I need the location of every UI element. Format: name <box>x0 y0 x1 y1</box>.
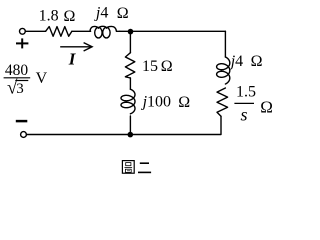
plus sign of source <box>16 38 28 48</box>
junction node top <box>128 29 134 35</box>
svg-text:3: 3 <box>16 81 24 97</box>
terminal - (bottom-left open circle) <box>21 132 27 138</box>
character tu <box>122 161 134 174</box>
svg-text:j4: j4 <box>94 5 108 22</box>
inductor j100 ohm vertical <box>121 89 135 114</box>
current arrow I <box>60 43 92 51</box>
wire right lower and bottom wire <box>26 116 221 134</box>
junction node bottom <box>128 132 134 138</box>
svg-text:Ω: Ω <box>251 53 263 70</box>
svg-text:15: 15 <box>142 58 158 75</box>
svg-text:j100: j100 <box>141 94 171 111</box>
wire right vertical upper <box>224 31 226 57</box>
caption tu-er (figure two) drawn strokes <box>122 161 151 174</box>
wire between resistor and inductor <box>72 30 91 32</box>
wire middle branch top <box>129 31 131 52</box>
wire middle between resistor and coil <box>129 78 131 89</box>
wire top-left <box>25 30 45 32</box>
svg-text:j4: j4 <box>229 53 243 70</box>
svg-text:V: V <box>36 70 48 87</box>
svg-text:Ω: Ω <box>64 8 76 25</box>
minus sign of source <box>16 120 27 123</box>
wire middle below coil <box>129 116 131 135</box>
resistor 15 ohm <box>125 53 134 78</box>
svg-text:Ω: Ω <box>260 97 273 116</box>
svg-text:1.8: 1.8 <box>39 8 59 25</box>
inductor j4 ohm right vertical <box>217 57 230 84</box>
resistor 1.5/s ohm <box>217 88 228 116</box>
svg-text:s: s <box>241 105 248 125</box>
inductor j4 ohm horizontal <box>95 27 102 38</box>
resistor 1.8 ohm <box>46 27 72 37</box>
svg-text:Ω: Ω <box>178 94 190 111</box>
svg-text:Ω: Ω <box>117 5 129 22</box>
wire top mid to right corner <box>120 30 226 32</box>
character er <box>140 162 149 164</box>
svg-text:1.5: 1.5 <box>236 84 256 101</box>
terminal + (top-left open circle) <box>20 28 26 34</box>
svg-text:Ω: Ω <box>161 58 173 75</box>
